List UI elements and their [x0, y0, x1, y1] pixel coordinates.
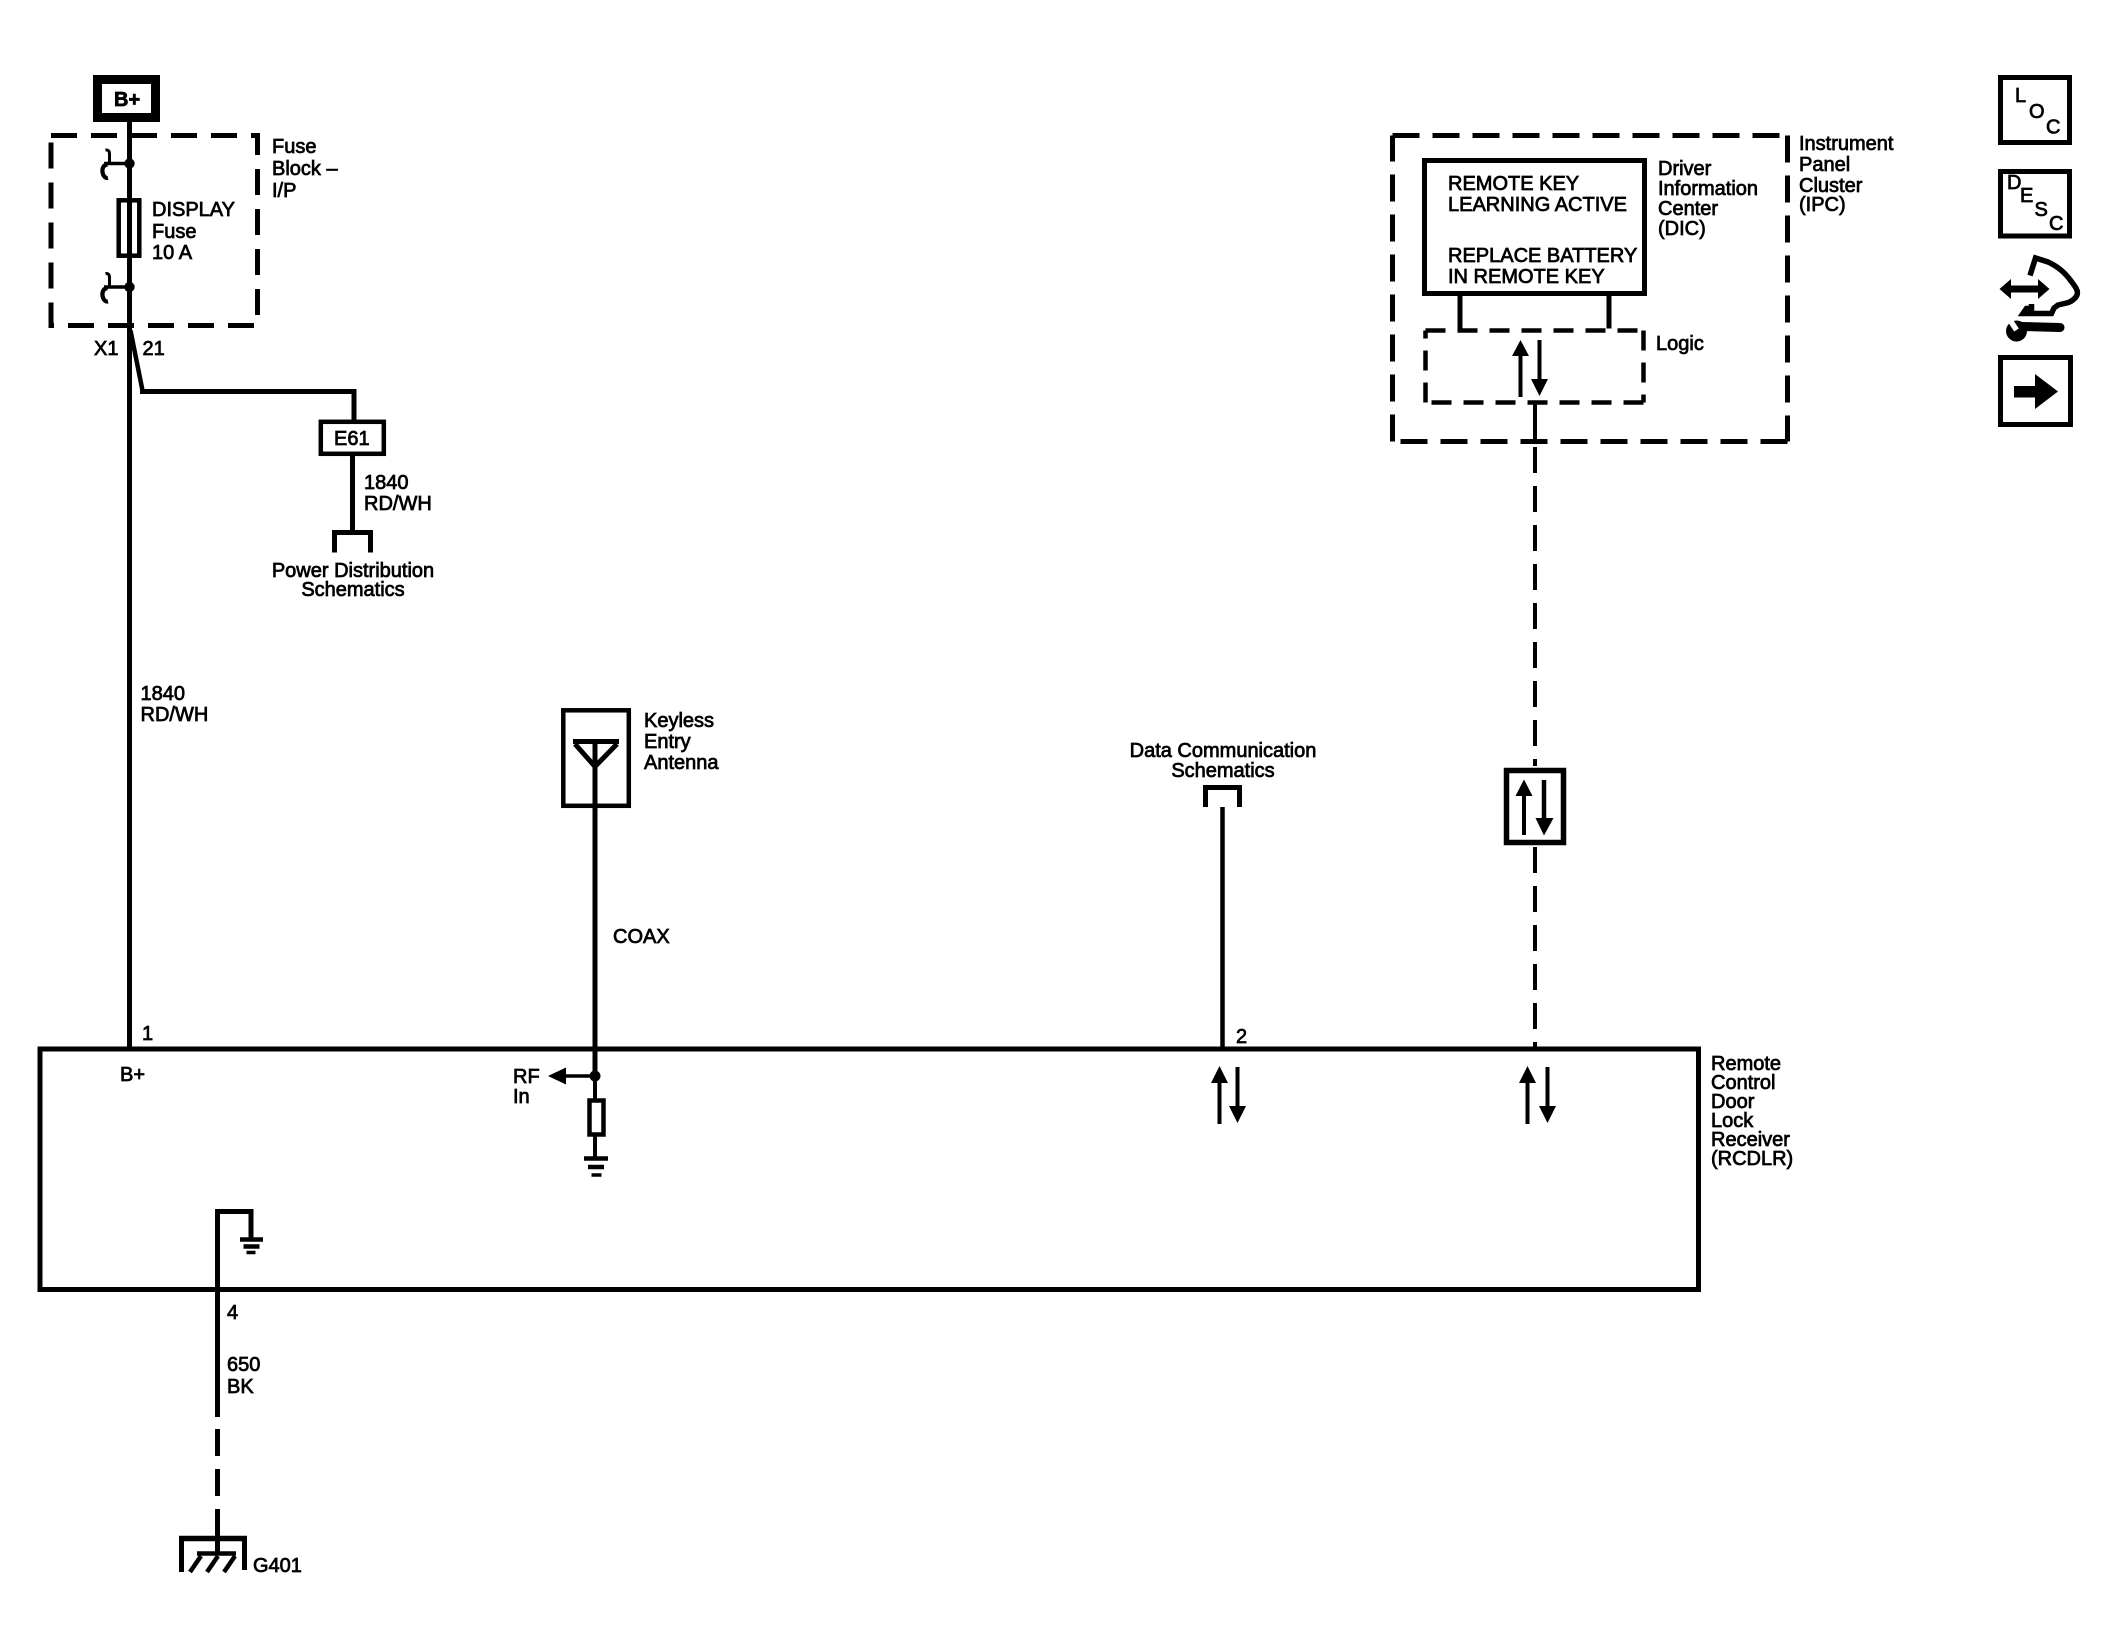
dashed serial data wire lower — [1533, 847, 1537, 1047]
svg-text:650: 650 — [227, 1354, 260, 1376]
svg-text:21: 21 — [143, 338, 165, 360]
svg-text:RF: RF — [513, 1066, 540, 1088]
ground wire inside RCDLR — [215, 1209, 254, 1292]
wire label 1840 RD/WH (main) — [141, 683, 209, 726]
wire pin 4 dashed — [215, 1429, 220, 1554]
svg-text:Keyless: Keyless — [644, 710, 714, 732]
connector terminal lower — [102, 273, 134, 301]
svg-text:G401: G401 — [253, 1555, 302, 1577]
node X1 pin 21 labels — [94, 338, 165, 360]
svg-text:Information: Information — [1658, 178, 1758, 200]
wires DIC to logic — [1458, 296, 1463, 329]
svg-text:C: C — [2046, 117, 2060, 139]
label Data Communication Schematics — [1130, 740, 1317, 782]
label Remote Control Door Lock Receiver (RCDLR) — [1711, 1053, 1793, 1170]
wire label 1840 RD/WH (branch) — [364, 472, 432, 515]
label Fuse Block - I/P — [272, 136, 338, 202]
label Instrument Panel Cluster (IPC) — [1799, 133, 1894, 216]
svg-text:Schematics: Schematics — [301, 579, 404, 601]
svg-text:(DIC): (DIC) — [1658, 218, 1706, 240]
serial data arrows box — [1507, 771, 1564, 843]
svg-text:4: 4 — [227, 1302, 238, 1324]
svg-text:REPLACE BATTERY: REPLACE BATTERY — [1448, 245, 1637, 267]
wire resistor to ground — [593, 1076, 597, 1100]
svg-text:Fuse: Fuse — [152, 221, 196, 243]
ground G401 symbol — [179, 1536, 247, 1572]
icon right arrow box — [2001, 358, 2071, 425]
wire label 650 BK — [227, 1354, 260, 1398]
icon communication (double arrow, connector outline, wrench) — [2000, 258, 2078, 342]
svg-text:Fuse: Fuse — [272, 136, 316, 158]
svg-text:C: C — [2049, 213, 2063, 235]
label Driver Information Center (DIC) — [1658, 158, 1758, 240]
svg-text:DISPLAY: DISPLAY — [152, 199, 235, 221]
RF In arrow — [548, 1068, 601, 1085]
wire vertical into E61 — [352, 389, 357, 421]
svg-text:S: S — [2035, 199, 2048, 221]
svg-text:X1: X1 — [94, 338, 118, 360]
wire B+ to RCDLR pin 1 — [127, 122, 132, 1048]
connector E61 — [321, 422, 384, 454]
svg-text:Antenna: Antenna — [644, 752, 719, 774]
svg-text:In: In — [513, 1086, 530, 1108]
svg-text:Block –: Block – — [272, 158, 338, 180]
label Keyless Entry Antenna — [644, 710, 719, 774]
svg-text:1840: 1840 — [141, 683, 186, 705]
svg-text:Center: Center — [1658, 198, 1718, 220]
svg-text:BK: BK — [227, 1376, 254, 1398]
wire E61 to power distribution — [350, 456, 355, 531]
svg-text:I/P: I/P — [272, 180, 296, 202]
RCDLR box — [40, 1049, 1699, 1290]
label DISPLAY Fuse 10 A — [152, 199, 235, 264]
icon LOC box — [2001, 78, 2070, 143]
svg-text:Data Communication: Data Communication — [1130, 740, 1317, 762]
svg-text:Instrument: Instrument — [1799, 133, 1894, 155]
svg-text:Entry: Entry — [644, 731, 691, 753]
svg-text:REMOTE KEY: REMOTE KEY — [1448, 173, 1579, 195]
svg-text:Logic: Logic — [1656, 333, 1704, 355]
svg-text:LEARNING ACTIVE: LEARNING ACTIVE — [1448, 194, 1627, 216]
keyless entry antenna U — [563, 710, 629, 806]
RCDLR serial up/down arrows — [1519, 1066, 1556, 1124]
IPC dashed box — [1393, 136, 1788, 442]
svg-text:(IPC): (IPC) — [1799, 194, 1846, 216]
off-page connector Power Distribution — [332, 530, 373, 553]
svg-text:10 A: 10 A — [152, 242, 193, 264]
svg-text:IN REMOTE KEY: IN REMOTE KEY — [1448, 266, 1605, 288]
svg-text:E: E — [2020, 185, 2033, 207]
svg-text:E61: E61 — [334, 428, 370, 450]
svg-text:1840: 1840 — [364, 472, 409, 494]
connector terminal upper — [102, 150, 134, 178]
wire serial data to pin 2 — [1220, 807, 1225, 1048]
svg-text:Schematics: Schematics — [1171, 760, 1274, 782]
logic box up/down arrows — [1512, 340, 1548, 397]
svg-text:RD/WH: RD/WH — [141, 704, 209, 726]
svg-text:COAX: COAX — [613, 926, 670, 948]
icon DESC box — [2001, 172, 2070, 237]
svg-text:B+: B+ — [114, 89, 140, 111]
svg-text:Driver: Driver — [1658, 158, 1712, 180]
label RF In — [513, 1066, 540, 1108]
wire logic to IPC edge — [1533, 403, 1537, 442]
ground (RF termination) — [584, 1159, 608, 1176]
wire diagonal branch — [131, 331, 143, 391]
logic dashed box — [1426, 331, 1644, 403]
resistor (termination) — [590, 1101, 604, 1135]
svg-text:1: 1 — [142, 1023, 153, 1045]
chassis ground symbol inside RCDLR — [240, 1240, 263, 1253]
wire horizontal to E61 — [140, 389, 354, 394]
pin 2 up/down arrows — [1211, 1066, 1246, 1124]
dashed serial data wire upper — [1533, 447, 1537, 766]
B+ power supply box — [98, 80, 156, 118]
svg-text:B+: B+ — [120, 1064, 145, 1086]
fuse DISPLAY 10A — [119, 200, 140, 255]
wire pin 4 solid — [215, 1292, 220, 1417]
label Power Distribution Schematics — [272, 560, 434, 601]
svg-text:2: 2 — [1236, 1026, 1247, 1048]
DIC display box — [1425, 161, 1645, 294]
svg-text:(RCDLR): (RCDLR) — [1711, 1148, 1793, 1170]
wire antenna coax to RF In — [593, 742, 598, 1077]
fuse block I/P dashed box — [51, 136, 258, 326]
svg-text:RD/WH: RD/WH — [364, 493, 432, 515]
svg-text:L: L — [2015, 85, 2026, 107]
svg-text:Panel: Panel — [1799, 154, 1850, 176]
off-page connector Data Communication — [1203, 785, 1242, 807]
svg-text:O: O — [2029, 101, 2045, 123]
